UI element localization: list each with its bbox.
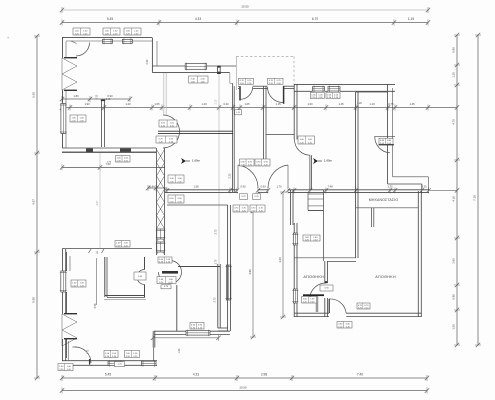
svg-text:1.45: 1.45 — [409, 102, 415, 106]
svg-text:1.75: 1.75 — [387, 184, 393, 188]
svg-text:+: + — [7, 36, 9, 40]
svg-text:0.90: 0.90 — [452, 47, 456, 53]
svg-text:7.48: 7.48 — [327, 184, 333, 188]
svg-text:1.05: 1.05 — [244, 102, 250, 106]
svg-text:1.15: 1.15 — [275, 102, 281, 106]
svg-text:20.50: 20.50 — [240, 386, 247, 390]
svg-text:1.03: 1.03 — [178, 348, 181, 353]
svg-text:1.20: 1.20 — [125, 102, 131, 106]
svg-text:1.75: 1.75 — [88, 349, 90, 354]
svg-text:0.44: 0.44 — [149, 184, 155, 188]
svg-text:1.70: 1.70 — [276, 184, 282, 188]
svg-text:5.58: 5.58 — [32, 297, 36, 303]
svg-text:1.05: 1.05 — [154, 102, 160, 106]
svg-text:20.50: 20.50 — [242, 5, 249, 9]
svg-text:4.97: 4.97 — [32, 199, 36, 205]
svg-text:5.45: 5.45 — [107, 17, 113, 21]
svg-text:1.70: 1.70 — [215, 259, 218, 264]
svg-text:1.50: 1.50 — [452, 324, 456, 330]
svg-text:1.10: 1.10 — [369, 102, 375, 106]
svg-text:1.80: 1.80 — [73, 94, 79, 98]
svg-text:0.90: 0.90 — [260, 184, 266, 188]
svg-text:0.90: 0.90 — [240, 184, 246, 188]
svg-text:1.90: 1.90 — [84, 102, 90, 106]
svg-text:6.70: 6.70 — [312, 17, 318, 21]
svg-text:2.98: 2.98 — [261, 373, 267, 377]
svg-text:0.98: 0.98 — [452, 294, 456, 300]
svg-text:4.97: 4.97 — [96, 200, 99, 205]
svg-text:6.60: 6.60 — [32, 92, 36, 98]
svg-text:ΜΗΧΑΝΟΣΤΑΣΙΟ: ΜΗΧΑΝΟΣΤΑΣΙΟ — [369, 198, 399, 202]
svg-text:3.73: 3.73 — [215, 229, 218, 234]
svg-text:0.30: 0.30 — [421, 184, 427, 188]
svg-text:3.20: 3.20 — [278, 257, 282, 263]
svg-text:2.20: 2.20 — [229, 173, 232, 178]
svg-text:2.30: 2.30 — [146, 59, 149, 64]
svg-text:1.60: 1.60 — [307, 102, 313, 106]
svg-text:1.58: 1.58 — [193, 184, 199, 188]
svg-text:1.15: 1.15 — [408, 17, 414, 21]
svg-text:1.40: 1.40 — [201, 102, 207, 106]
svg-text:1.60m: 1.60m — [324, 159, 333, 163]
svg-text:4.33: 4.33 — [193, 373, 199, 377]
svg-text:4.70: 4.70 — [452, 119, 456, 125]
svg-text:1.45: 1.45 — [338, 102, 344, 106]
svg-text:1.20: 1.20 — [452, 72, 456, 78]
svg-text:ΑΠΟΘΗΚΗ: ΑΠΟΘΗΚΗ — [375, 275, 396, 279]
svg-text:2.60: 2.60 — [452, 258, 456, 264]
svg-text:2.20: 2.20 — [215, 99, 218, 104]
svg-text:0.40: 0.40 — [106, 99, 111, 101]
svg-text:4.18: 4.18 — [452, 196, 456, 202]
svg-text:4.33: 4.33 — [195, 17, 201, 21]
svg-text:0.75: 0.75 — [388, 102, 394, 106]
svg-text:5.45: 5.45 — [105, 373, 111, 377]
svg-text:7.40: 7.40 — [357, 373, 363, 377]
svg-text:1.60m: 1.60m — [192, 159, 201, 163]
svg-text:3.70: 3.70 — [214, 297, 217, 302]
svg-text:ΑΠΟΘΗΚΗ: ΑΠΟΘΗΚΗ — [303, 275, 324, 279]
svg-text:4.95: 4.95 — [248, 269, 252, 275]
svg-text:0.30: 0.30 — [97, 94, 99, 99]
svg-text:7.18: 7.18 — [473, 195, 477, 201]
svg-text:0.90: 0.90 — [107, 94, 113, 98]
svg-text:0.20: 0.20 — [223, 102, 229, 106]
